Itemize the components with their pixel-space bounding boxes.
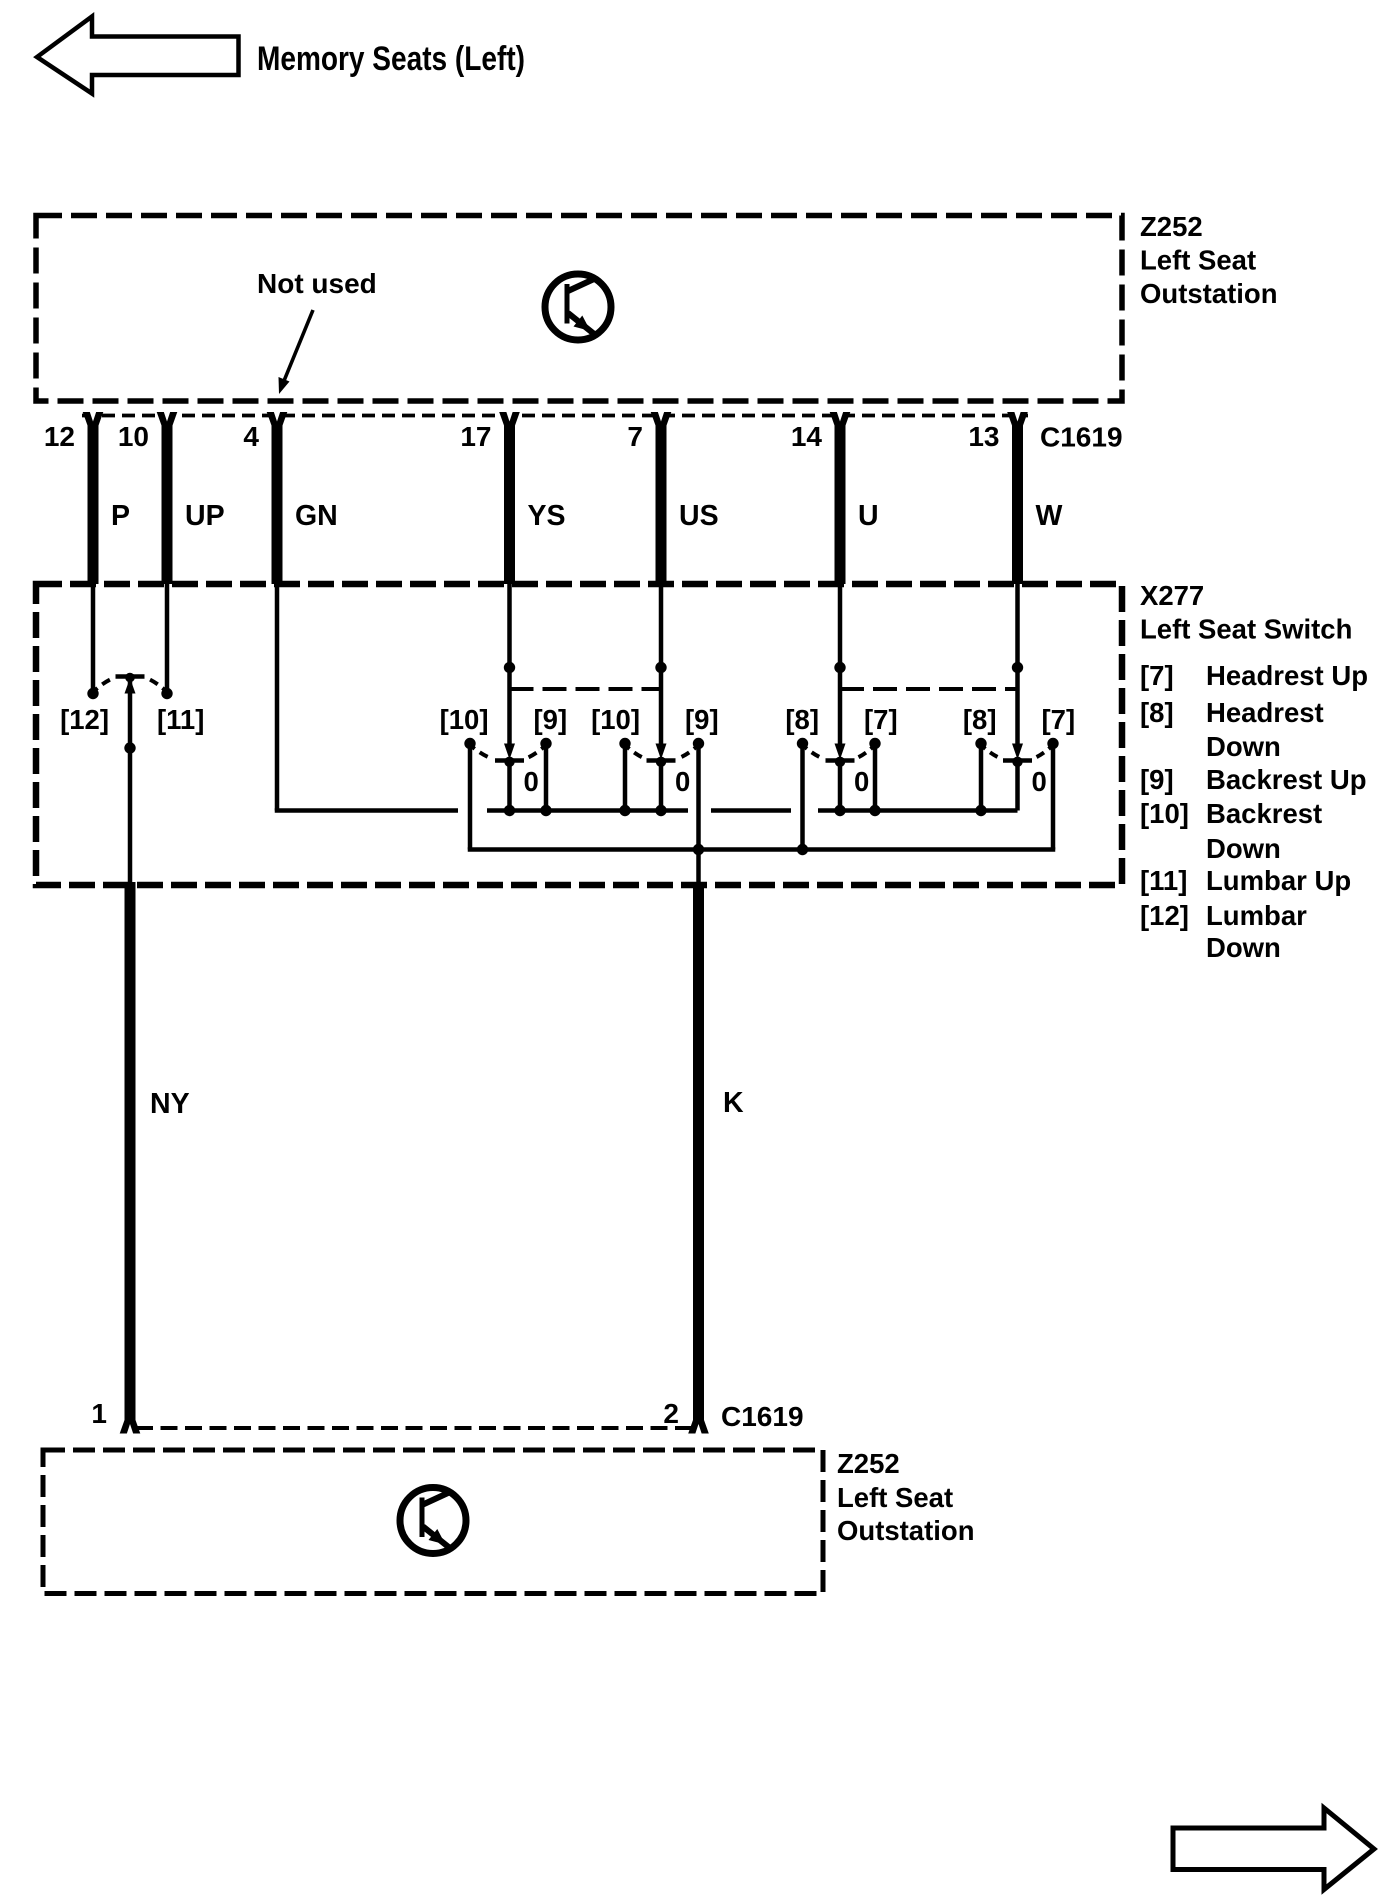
switch 2 contact wire to common bus (623, 744, 628, 811)
svg-text:[10]: [10] (1140, 798, 1189, 829)
wire K (X277 to pin 2) (693, 882, 704, 1427)
svg-text:Outstation: Outstation (837, 1515, 975, 1546)
label C1619 (top) (1040, 422, 1123, 453)
svg-text:[12]: [12] (60, 704, 109, 735)
switch 4 contact wire to output line (1051, 744, 1056, 850)
title: Memory Seats (Left) (257, 40, 525, 78)
switch 3 contact [7] (869, 738, 880, 749)
label [11] (157, 704, 204, 735)
switch 4 wiper arrow (down) (1012, 744, 1023, 760)
wire label U (858, 500, 879, 532)
common bus segment (headrest switches) (818, 805, 1018, 816)
svg-text:Down: Down (1206, 833, 1281, 864)
label 0 (switch 4 rest position) (1032, 766, 1047, 797)
svg-text:Left Seat: Left Seat (1140, 245, 1256, 276)
common bus segment (backrest switches) (487, 805, 688, 816)
switch 4 contact [7] (1047, 738, 1058, 749)
svg-text:Memory Seats (Left): Memory Seats (Left) (257, 40, 525, 78)
svg-text:Left Seat: Left Seat (837, 1482, 953, 1513)
svg-text:[7]: [7] (1042, 704, 1076, 735)
pin 4 of C1619 (top) (243, 412, 287, 453)
switch wiper wire backrest (US) (655, 584, 666, 745)
common bus segment (crossover) (711, 808, 791, 813)
switch 2 dashed contact arc (625, 745, 699, 762)
wire label UP (185, 500, 225, 532)
switch wiper wire headrest (U) (834, 584, 845, 745)
label [7] (switch 4) (1042, 704, 1076, 735)
svg-text:K: K (723, 1087, 744, 1119)
svg-text:[9]: [9] (534, 704, 568, 735)
svg-text:[9]: [9] (685, 704, 719, 735)
svg-text:Headrest Up: Headrest Up (1206, 660, 1368, 691)
svg-text:Outstation: Outstation (1140, 278, 1278, 309)
switch 3 wiper T-bar (826, 757, 855, 767)
label Z252 / Left Seat / Outstation (bottom right) (837, 1448, 975, 1546)
wire GN inside X277 down to common bus (275, 584, 280, 811)
wire label US (679, 500, 719, 532)
svg-text:Backrest: Backrest (1206, 798, 1322, 829)
svg-text:7: 7 (627, 421, 643, 452)
pin 14 of C1619 (top) (791, 412, 850, 453)
switch 1 contact wire to output line (468, 744, 473, 850)
switch 1 wiper arrow (down) (504, 744, 515, 760)
pin 12 of C1619 (top) (44, 412, 103, 453)
wire label K (723, 1087, 744, 1119)
svg-text:UP: UP (185, 500, 225, 532)
switch 3 contact wire to common bus (873, 744, 878, 811)
connector C1619 (top) dashed connector line (82, 414, 1028, 418)
leader arrow from note to unused connector cavity (279, 310, 314, 394)
switch 3 wiper arrow (down) (835, 744, 846, 760)
switch 1 contact [10] (464, 738, 475, 749)
label 0 (switch 3 rest position) (854, 766, 869, 797)
switch 2 wiper arrow (down) (656, 744, 667, 760)
label [8] (switch 4) (963, 704, 997, 735)
wire label GN (295, 500, 338, 532)
svg-text:C1619: C1619 (1040, 422, 1123, 453)
svg-text:[8]: [8] (1140, 697, 1174, 728)
lumbar switch wiper T-bar (116, 673, 145, 683)
switch 2 contact [10] (619, 738, 630, 749)
module Z252 Left Seat Outstation (top) dashed box (36, 216, 1122, 402)
wire US (pin 7 to X277) (656, 423, 667, 584)
outstation internal symbol (transistor in circle), bottom (400, 1488, 466, 1554)
switch 1 contact wire to common bus (544, 744, 549, 811)
switch wiper wire headrest (W) (1012, 584, 1023, 745)
svg-text:[11]: [11] (1140, 865, 1187, 896)
svg-text:[11]: [11] (157, 704, 204, 735)
svg-text:10: 10 (118, 421, 149, 452)
switch 3 wiper to common bus (838, 758, 843, 811)
svg-text:4: 4 (243, 421, 259, 452)
label [9] (switch 2) (685, 704, 719, 735)
wire UP inside X277 to contact [11] (161, 584, 172, 699)
pin 17 of C1619 (top) (460, 412, 519, 453)
wire label YS (528, 500, 566, 532)
wire GN (pin 4 to X277) (272, 423, 283, 584)
page-link arrow (to previous page) (37, 17, 239, 94)
svg-text:X277: X277 (1140, 580, 1204, 611)
label [10] (switch 2) (591, 704, 640, 735)
svg-text:NY: NY (150, 1088, 190, 1120)
pin 13 of C1619 (top) (968, 412, 1027, 453)
label [7] (switch 3) (864, 704, 898, 735)
switch 1 contact [9] (540, 738, 551, 749)
svg-text:Lumbar: Lumbar (1206, 900, 1307, 931)
svg-text:[10]: [10] (440, 704, 489, 735)
svg-text:[10]: [10] (591, 704, 640, 735)
svg-text:Headrest: Headrest (1206, 697, 1324, 728)
output line joining [10]/[9]/[8]/[7] contacts (to K) (468, 844, 1056, 855)
label [9] (switch 1) (534, 704, 568, 735)
label C1619 (bottom) (721, 1401, 804, 1432)
pin 2 of C1619 (bottom) (663, 1398, 708, 1434)
label [12] (60, 704, 109, 735)
svg-text:[7]: [7] (864, 704, 898, 735)
svg-text:1: 1 (91, 1398, 107, 1429)
legend of switch positions (1140, 660, 1368, 963)
svg-text:P: P (111, 500, 130, 532)
mechanical link backrest switches (dashed) (510, 687, 662, 691)
svg-text:US: US (679, 500, 719, 532)
svg-text:W: W (1036, 500, 1063, 532)
wire label NY (150, 1088, 190, 1120)
wire K inside X277 from output line to box edge (696, 850, 701, 886)
svg-text:0: 0 (1032, 766, 1047, 797)
wire U (pin 14 to X277) (835, 423, 846, 584)
svg-text:U: U (858, 500, 879, 532)
svg-text:Lumbar Up: Lumbar Up (1206, 865, 1351, 896)
switch 4 contact wire to common bus (979, 744, 984, 811)
lumbar switch dashed arc ([12]-[11]) (93, 675, 167, 693)
switch 3 dashed contact arc (803, 745, 876, 762)
label [10] (switch 1) (440, 704, 489, 735)
common bus segment from GN (275, 808, 458, 813)
svg-text:[12]: [12] (1140, 900, 1189, 931)
svg-text:13: 13 (968, 421, 999, 452)
svg-text:[8]: [8] (785, 704, 819, 735)
svg-text:[8]: [8] (963, 704, 997, 735)
label 0 (switch 1 rest position) (524, 766, 539, 797)
switch 4 contact [8] (975, 738, 986, 749)
wire label W (1036, 500, 1063, 532)
switch wiper wire backrest (YS) (504, 584, 515, 745)
svg-text:Down: Down (1206, 731, 1281, 762)
label Z252 / Left Seat / Outstation (top right) (1140, 211, 1278, 309)
wire P inside X277 to contact [12] (87, 584, 98, 699)
svg-text:Z252: Z252 (1140, 211, 1203, 242)
switch 2 wiper T-bar (647, 757, 676, 767)
svg-text:Down: Down (1206, 932, 1281, 963)
svg-text:17: 17 (460, 421, 491, 452)
svg-text:C1619: C1619 (721, 1401, 804, 1432)
lumbar wiper wire down to box edge (becomes NY) (124, 681, 135, 885)
svg-text:[9]: [9] (1140, 764, 1174, 795)
switch 1 dashed contact arc (470, 745, 546, 762)
pin 1 of C1619 (bottom) (91, 1398, 140, 1434)
svg-text:12: 12 (44, 421, 75, 452)
pin 10 of C1619 (top) (118, 412, 177, 453)
svg-text:14: 14 (791, 421, 823, 452)
label 0 (switch 2 rest position) (675, 766, 690, 797)
svg-text:0: 0 (524, 766, 539, 797)
switch 4 dashed contact arc (981, 745, 1053, 762)
switch 2 contact wire to output line (696, 744, 701, 850)
module Z252 Left Seat Outstation (bottom) dashed box (43, 1450, 823, 1594)
switch 4 wiper T-bar (1003, 757, 1032, 767)
note: Not used (257, 268, 377, 299)
switch 1 wiper T-bar (495, 757, 524, 767)
svg-text:Z252: Z252 (837, 1448, 900, 1479)
switch 2 wiper to common bus (659, 758, 664, 811)
pin 7 of C1619 (top) (627, 412, 671, 453)
switch 4 wiper to common bus (1015, 758, 1020, 811)
wire P (pin 12 to X277) (88, 423, 99, 584)
switch 2 contact [9] (693, 738, 704, 749)
switch 3 contact wire to output line (800, 744, 805, 850)
svg-text:[7]: [7] (1140, 660, 1174, 691)
label [8] (switch 3) (785, 704, 819, 735)
svg-text:0: 0 (854, 766, 869, 797)
svg-text:Backrest Up: Backrest Up (1206, 764, 1367, 795)
switch 1 wiper to common bus (507, 758, 512, 811)
svg-text:2: 2 (663, 1398, 679, 1429)
svg-text:Not used: Not used (257, 268, 377, 299)
switch 3 contact [8] (797, 738, 808, 749)
svg-text:YS: YS (528, 500, 566, 532)
switch X277 Left Seat Switch dashed box (36, 584, 1122, 885)
wire W (pin 13 to X277) (1012, 423, 1023, 584)
wire YS (pin 17 to X277) (504, 423, 515, 584)
page-link arrow (to next page) (1173, 1808, 1374, 1890)
label X277 / Left Seat Switch (1140, 580, 1352, 645)
connector C1619 (bottom) dashed connector line (136, 1426, 692, 1430)
lumbar switch wiper arrow (up) (125, 678, 136, 694)
outstation internal symbol (transistor in circle), top (545, 274, 611, 340)
svg-text:GN: GN (295, 500, 338, 532)
wire NY (X277 to pin 1) (125, 882, 136, 1427)
svg-text:0: 0 (675, 766, 690, 797)
svg-text:Left Seat Switch: Left Seat Switch (1140, 614, 1352, 645)
mechanical link headrest switches (dashed) (840, 687, 1018, 691)
wire label P (111, 500, 130, 532)
wire UP (pin 10 to X277) (162, 423, 173, 584)
